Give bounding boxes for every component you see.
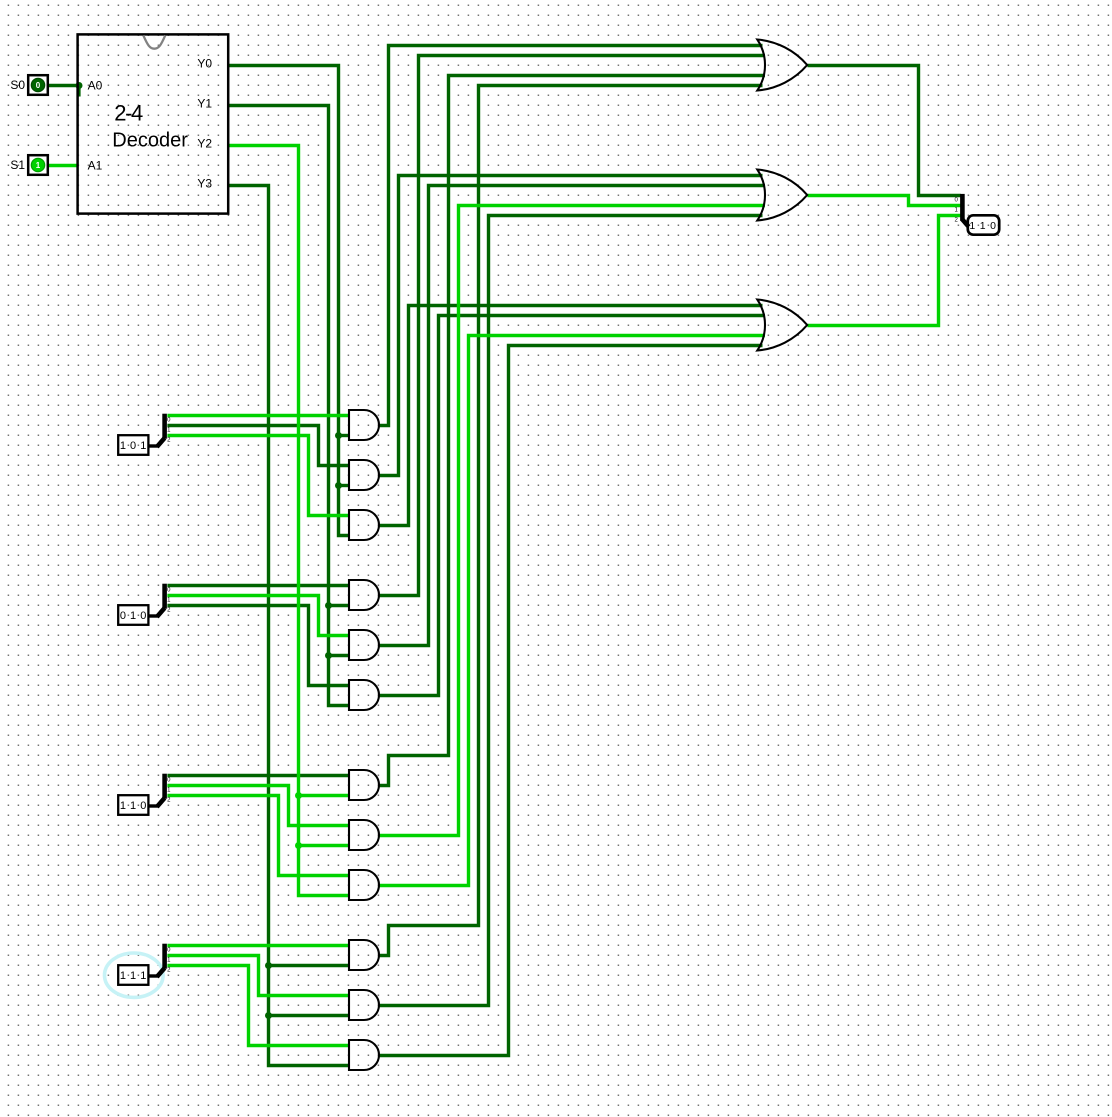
OR gate U16 [757, 300, 807, 351]
OR gate U15 [757, 170, 807, 221]
pin label U1.Y3 [197, 176, 212, 190]
wire U10 output to U16 input [379, 336, 766, 886]
pin label U1.A0 [88, 78, 103, 92]
pin label U1.Y2 [197, 136, 212, 150]
AND gate U3 [349, 460, 379, 490]
svg-text:Y0: Y0 [197, 56, 212, 70]
node Y1-U6 junction [325, 652, 332, 659]
wire U9 output to U15 input [379, 206, 766, 836]
svg-text:1: 1 [140, 440, 146, 452]
svg-text:1: 1 [120, 800, 126, 812]
wire S1 to U1.A1 [49, 164, 79, 167]
constant K1 value 101 [118, 435, 148, 455]
splitter SP5 [962, 194, 968, 227]
wire K4 bit2 to U13 input [167, 966, 349, 1046]
AND gate U2 [349, 410, 379, 440]
svg-text:1: 1 [120, 970, 126, 982]
svg-text:0: 0 [990, 220, 996, 232]
svg-text:0: 0 [140, 800, 146, 812]
pin numbers SP5 [955, 197, 959, 223]
splitter SP2 [149, 584, 165, 617]
node U1.A0 junction [76, 82, 83, 89]
wire U4 output to U16 input [379, 306, 763, 526]
decoder U1 2-4 Decoder body [78, 34, 229, 213]
AND gate U13 [349, 1040, 379, 1070]
wire K2 bit1 to U6 input [167, 596, 349, 636]
svg-text:S1: S1 [10, 158, 25, 172]
label S0 [10, 78, 25, 92]
AND gate U12 [349, 990, 379, 1020]
wire U6 output to U15 input [379, 186, 766, 646]
output pin O1 (value 110) [968, 215, 999, 234]
pin numbers SP2 [167, 587, 171, 613]
wire K4 bit1 to U12 input [167, 956, 349, 996]
AND gate U10 [349, 870, 379, 900]
svg-text:Y2: Y2 [197, 136, 212, 150]
input pin S1 (value 1) [28, 155, 48, 175]
wire S0 to U1.A0 [49, 84, 79, 87]
wire U7 output to U16 input [379, 316, 766, 696]
wire net Y1 (U1.Y1 to AND group2 lower inputs) [229, 106, 350, 706]
wire net Y3 (U1.Y3 to AND group4 lower inputs) [229, 186, 350, 1066]
constant K3 value 110 [118, 795, 148, 815]
wire K1 bit0 to U2 input [167, 414, 349, 417]
svg-text:0: 0 [120, 610, 126, 622]
wire U16 output to SP5 pin2 [808, 216, 961, 326]
label S1 [10, 158, 25, 172]
AND gate U5 [349, 580, 379, 610]
AND gate U8 [349, 770, 379, 800]
node Y0-U2 junction [335, 432, 342, 439]
wire stub below U1.A0 [78, 86, 80, 97]
node Y3-U12 junction [265, 1012, 272, 1019]
AND gate U6 [349, 630, 379, 660]
svg-text:0: 0 [140, 610, 146, 622]
wire K2 bit0 to U5 input [167, 584, 349, 587]
node Y3-U11 junction [265, 962, 272, 969]
AND gate U11 [349, 940, 379, 970]
wire U15 output to SP5 pin1 [808, 196, 961, 206]
node Y0-U3 junction [335, 482, 342, 489]
wire K3 bit0 to U8 input [167, 774, 349, 777]
wire U13 output to U16 input [379, 346, 763, 1056]
svg-text:Y1: Y1 [197, 96, 212, 110]
svg-text:A1: A1 [88, 158, 103, 172]
splitter SP4 [149, 944, 165, 977]
svg-text:2-4: 2-4 [114, 101, 143, 126]
wire K3 bit1 to U9 input [167, 786, 349, 826]
node Y2-U8 junction [295, 792, 302, 799]
AND gate U7 [349, 680, 379, 710]
wire K1 bit2 to U4 input [167, 436, 349, 516]
input pin S0 (value 0) [28, 75, 48, 95]
pin label U1.Y0 [197, 56, 212, 70]
pin numbers SP3 [167, 777, 171, 803]
svg-text:1: 1 [130, 800, 136, 812]
svg-text:1: 1 [130, 610, 136, 622]
wire U12 output to U15 input [379, 216, 763, 1006]
AND gate U4 [349, 510, 379, 540]
wire U11 output to U14 input [379, 86, 763, 956]
constant K2 value 010 [118, 605, 148, 625]
wire U8 output to U14 input [379, 76, 766, 786]
wire K4 bit0 to U11 input [167, 944, 349, 947]
AND gate U9 [349, 820, 379, 850]
wire U14 output to SP5 pin0 [808, 66, 961, 196]
svg-text:1: 1 [130, 970, 136, 982]
svg-text:0: 0 [130, 440, 136, 452]
svg-text:1: 1 [36, 161, 41, 170]
svg-text:0: 0 [36, 81, 41, 90]
pin numbers SP4 [167, 947, 171, 973]
node Y1-U5 junction [325, 602, 332, 609]
splitter SP3 [149, 774, 165, 807]
wire K3 bit2 to U10 input [167, 796, 349, 876]
constant K4 value 111 [118, 965, 148, 985]
svg-text:1: 1 [120, 440, 126, 452]
wire U2 output to U14 input [379, 46, 763, 426]
pin label U1.Y1 [197, 96, 212, 110]
svg-text:S0: S0 [10, 78, 25, 92]
svg-text:1: 1 [969, 220, 975, 232]
svg-text:Y3: Y3 [197, 176, 212, 190]
svg-text:A0: A0 [88, 78, 103, 92]
svg-text:1: 1 [980, 220, 986, 232]
node Y2-U9 junction [295, 842, 302, 849]
wire U3 output to U15 input [379, 176, 763, 476]
wire U5 output to U14 input [379, 56, 766, 596]
svg-text:1: 1 [140, 970, 146, 982]
OR gate U14 [757, 40, 807, 91]
wire net Y0 (U1.Y0 to AND group1 lower inputs) [229, 66, 350, 536]
wire K2 bit2 to U7 input [167, 606, 349, 686]
wire K1 bit1 to U3 input [167, 426, 349, 466]
svg-text:Decoder: Decoder [112, 129, 188, 151]
splitter SP1 [149, 414, 165, 447]
pin numbers SP1 [167, 417, 171, 443]
wire net Y2 (U1.Y2 to AND group3 lower inputs) [229, 146, 350, 896]
pin label U1.A1 [88, 158, 103, 172]
selection halo around constant K4 [105, 953, 164, 997]
